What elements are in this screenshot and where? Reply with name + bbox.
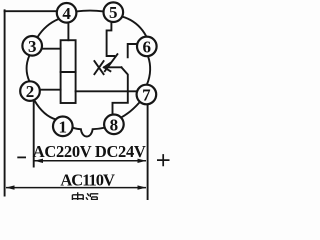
svg-text:AC110V: AC110V <box>60 170 115 189</box>
arc pin6-pin7 <box>147 56 150 84</box>
pin 2 <box>20 81 40 101</box>
minus sign <box>17 156 26 158</box>
pin 4 <box>57 3 77 23</box>
dim1 right arrow <box>138 159 147 163</box>
delay mark X <box>94 61 103 74</box>
plus sign <box>157 154 170 166</box>
svg-text:6: 6 <box>143 37 152 56</box>
contact arrow arm horizontal <box>104 66 121 68</box>
pin 5 <box>104 2 124 22</box>
svg-text:AC220V DC24V: AC220V DC24V <box>33 142 146 161</box>
pin 7 <box>137 85 157 105</box>
svg-text:5: 5 <box>109 3 118 22</box>
dim1 left arrow <box>34 159 43 163</box>
arc pin1-keyway-pin8 (socket keyway notch) <box>73 128 105 137</box>
contact fixed lead from pin5 (bent fixed contact) <box>107 22 115 56</box>
contact pivot diagonal down to pin8 elbow <box>113 67 128 114</box>
coil divider <box>61 71 76 73</box>
arc pin7-pin8 <box>121 102 140 117</box>
dim1 line AC220V/DC24V <box>35 160 147 162</box>
wire pin4 to left frame <box>5 10 57 12</box>
wire coil right to pin7 <box>76 90 137 92</box>
svg-text:3: 3 <box>28 37 37 56</box>
arc pin4-pin5 <box>76 10 103 13</box>
dim2 right arrow <box>138 185 147 189</box>
coil (time-relay coil, two-section rectangle) <box>61 40 76 103</box>
dim2 left arrow <box>6 185 15 189</box>
wire pin4 to coil top <box>67 23 69 41</box>
pin 1 <box>53 117 73 137</box>
wire pin7 down to bottom <box>147 105 149 200</box>
contact fixed lead from pin6 <box>128 44 138 57</box>
svg-text:2: 2 <box>26 82 35 101</box>
arc pin3-pin4 <box>38 19 59 37</box>
svg-text:8: 8 <box>110 115 119 134</box>
dimension lines <box>6 159 147 190</box>
wire pin3 to coil left <box>42 48 61 50</box>
wire pin2 to coil left <box>40 89 61 91</box>
pin number labels <box>26 3 151 136</box>
pin 8 <box>104 115 124 135</box>
arc pin2-pin3 <box>27 56 30 82</box>
pin 3 <box>22 36 42 56</box>
wire left frame vertical <box>4 10 6 195</box>
wire pin2 down to dimension line 1 <box>33 100 35 166</box>
pin 6 <box>137 37 157 57</box>
arc pin5-pin6 <box>122 17 146 37</box>
contact arrow head barbs <box>104 63 110 71</box>
label 源 <box>86 193 98 200</box>
svg-text:7: 7 <box>142 86 151 105</box>
contact movable blade diagonal <box>105 54 118 71</box>
svg-text:4: 4 <box>62 4 71 23</box>
svg-text:1: 1 <box>59 117 68 136</box>
label 电 (power word, cut at bottom edge) <box>72 192 83 200</box>
arc pin2-pin1 <box>34 100 56 119</box>
dim2 line AC110V <box>6 187 146 189</box>
